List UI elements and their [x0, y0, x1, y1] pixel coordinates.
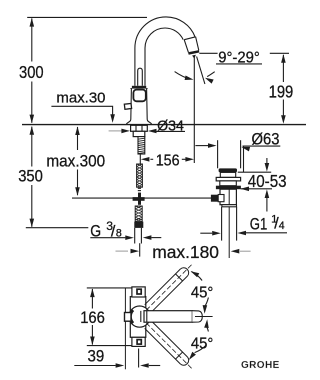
faucet body [126, 89, 151, 125]
svg-text:G1: G1 [250, 215, 267, 234]
rotation arc upper [191, 272, 208, 308]
svg-text:max.30: max.30 [56, 91, 105, 107]
body top dark band [132, 86, 146, 89]
top view: ghost spout upper [145, 264, 193, 312]
pull rod segment [139, 154, 141, 164]
top view: ghost spout lower [145, 321, 193, 369]
dimension max.300 [46, 126, 105, 195]
label max.30 with leader [51, 91, 115, 123]
waste neck lower [220, 181, 237, 186]
supply tube end [135, 228, 142, 244]
svg-text:39: 39 [88, 347, 105, 365]
faucet spout outer curve [135, 17, 195, 86]
svg-text:Ø34: Ø34 [157, 118, 184, 134]
dimension 300 [19, 18, 44, 123]
pop-up waste extension lines [217, 140, 219, 168]
threaded shank block [131, 125, 148, 136]
dimension 199 [269, 53, 294, 124]
faucet spout inner curve [145, 28, 183, 86]
svg-text:350: 350 [18, 168, 43, 186]
svg-text:40-53: 40-53 [248, 171, 287, 191]
top view: mounting plate [130, 297, 146, 338]
pop-up rod horizontal linkage [72, 197, 211, 199]
joystick handle stick [138, 68, 143, 86]
aerator vertical extension line [193, 56, 195, 164]
dimension diameter 63 [195, 130, 280, 173]
flexible hose lower [135, 206, 142, 222]
svg-text:199: 199 [269, 82, 294, 102]
aerator body [184, 40, 188, 53]
waste centerline [228, 189, 230, 258]
water drip mark [192, 55, 196, 59]
top view: spout centerline [195, 316, 213, 318]
swivel arc right [207, 72, 215, 77]
waste tailpipe [221, 207, 223, 241]
dimension 166 [80, 289, 105, 346]
dimension G3/8 [26, 219, 162, 240]
hose end ticks [138, 187, 141, 189]
threaded tube [138, 137, 145, 154]
waste rod knob [211, 195, 218, 202]
rotation arc lower [195, 327, 209, 353]
svg-text:max.180: max.180 [152, 242, 219, 262]
top view: left extension line [124, 289, 126, 370]
top view: valve hub [129, 306, 150, 327]
hose nut [134, 222, 143, 228]
label 9deg-29deg [199, 49, 262, 66]
svg-text:4: 4 [279, 220, 285, 232]
waste body [220, 189, 236, 205]
top view: upper tab [132, 287, 145, 297]
swivel angled line [197, 57, 205, 85]
top reference line (spout height) [27, 16, 147, 18]
body front panel [133, 90, 145, 102]
waste flange [216, 177, 240, 181]
top view: spout [144, 311, 192, 323]
svg-text:166: 166 [80, 309, 105, 327]
dimension diameter 34 [109, 118, 185, 134]
dimension 156 [141, 152, 194, 169]
waste plug cap [219, 168, 237, 172]
waste rod socket [218, 195, 224, 202]
top view: spout end cap [192, 311, 202, 323]
top view: lower tab [132, 337, 145, 346]
swivel arc left [175, 72, 191, 80]
pull rod clamp [133, 193, 145, 205]
svg-text:GROHE: GROHE [241, 360, 280, 371]
dimension 40-53 [238, 158, 287, 212]
countertop deck line [22, 124, 306, 126]
svg-text:300: 300 [19, 62, 44, 82]
aerator joint line [184, 37, 195, 40]
svg-text:45°: 45° [191, 285, 214, 302]
dimension 39 [74, 347, 160, 367]
svg-text:45°: 45° [191, 336, 214, 353]
waste o-ring [216, 186, 241, 190]
svg-text:156: 156 [156, 152, 180, 169]
waste shoulder [222, 205, 237, 207]
top view: 166 reference lines [87, 287, 136, 289]
flexible hose upper [137, 164, 143, 187]
svg-text:max.300: max.300 [46, 152, 105, 171]
side lever [124, 103, 131, 109]
dimension 350 [18, 126, 43, 227]
dimension G1 1/4 [200, 214, 287, 236]
dimension max.180 [116, 242, 251, 262]
top view: left protrusion [125, 313, 132, 322]
aerator outlet face [188, 50, 199, 55]
waste neck upper [220, 172, 235, 177]
